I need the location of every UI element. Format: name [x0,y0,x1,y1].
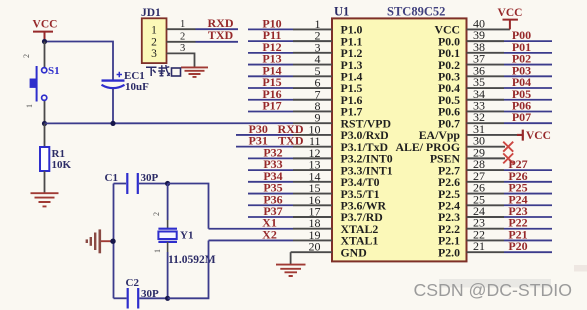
svg-text:S1: S1 [48,65,60,77]
wire net P13 / pin 4 [248,52,332,67]
svg-text:P17: P17 [262,98,281,112]
svg-text:Y1: Y1 [180,230,193,242]
watermark background band [439,279,551,288]
svg-text:U1: U1 [334,5,349,19]
node junction EC1 / reset bus [110,121,115,126]
wire net P32 / pin 12 [248,145,332,160]
wire net P37 / pin 17 [248,204,332,219]
wire C1-C2 left rail [113,184,115,299]
wire net P12 / pin 3 [248,40,332,55]
svg-text:CSDN @DC-STDIO: CSDN @DC-STDIO [414,280,572,300]
wire net P33 / pin 13 [248,157,332,172]
svg-text:30P: 30P [141,172,159,184]
capacitor EC1 10uF [102,70,150,124]
pin 30 no-connect [467,134,514,152]
svg-text:X2: X2 [262,227,277,241]
IC U1 right pin names [395,23,460,260]
IC U1 left pin names [341,23,393,260]
wire net P15 / pin 6 [248,75,332,90]
pin 31 EA to VCC [467,122,551,142]
wire net P03 / pin 36 [467,63,553,77]
capacitor C2 30P [114,277,168,309]
svg-text:1: 1 [180,19,185,30]
resistor R1 10K [40,124,72,194]
wire net P34 / pin 14 [248,169,332,184]
wire net P26 / pin 27 [467,169,553,183]
wire VCC to EC1 top [45,42,114,81]
pin 40 to VCC [467,7,523,30]
wire net P23 / pin 24 [467,204,553,218]
wire net P06 / pin 33 [467,98,553,112]
svg-text:2: 2 [152,212,161,216]
capacitor C1 30P [105,172,168,194]
svg-text:VCC: VCC [498,7,523,19]
svg-text:3: 3 [180,43,185,54]
pin 3 of JD1 to ground [167,53,195,67]
svg-text:C2: C2 [126,277,140,289]
earth ground (left of crystal) [87,229,113,253]
wire net P21 / pin 22 [467,227,553,241]
switch S1 [22,42,60,124]
pin 2 of JD1 [167,41,196,43]
node junction ground / left rail [110,239,115,244]
wire net P04 / pin 35 [467,75,553,89]
node junction C1 right [165,181,170,186]
IC U1 STC89C52 body [332,5,467,262]
wire net P24 / pin 25 [467,192,553,206]
svg-text:2: 2 [151,37,157,49]
svg-text:21: 21 [473,239,485,253]
crystal Y1 [152,184,216,299]
wire net P25 / pin 26 [467,181,553,195]
wire net P36 / pin 16 [248,192,332,207]
svg-text:TXD: TXD [208,28,234,42]
node junction at VCC [42,39,47,44]
wire net P16 / pin 7 [248,87,332,102]
wire C1 to X1 [168,184,209,229]
svg-text:GND: GND [341,245,367,259]
ground below pin 20 [276,265,306,276]
svg-text:VCC: VCC [33,19,58,31]
svg-text:STC89C52: STC89C52 [387,5,445,19]
svg-text:C1: C1 [105,172,118,184]
svg-text:P07: P07 [512,110,531,124]
label download-port (Chinese) [146,65,181,76]
wire net P22 / pin 23 [467,216,553,230]
svg-text:2: 2 [22,54,31,58]
node junction C2 right [165,296,170,301]
svg-text:30P: 30P [141,288,159,300]
svg-text:P20: P20 [508,239,527,253]
pin 1 of JD1 [167,28,196,30]
wire net RXD [196,28,239,30]
wire net P02 / pin 37 [467,52,553,66]
svg-text:VCC: VCC [526,130,551,142]
wire net P31 TXD / pin 11 [236,134,332,149]
svg-text:20: 20 [309,240,321,254]
wire reset bus to pin9 [45,122,294,124]
wire net P01 / pin 38 [467,40,553,54]
svg-text:10K: 10K [52,159,72,171]
svg-text:1: 1 [151,25,157,37]
wire net P27 / pin 28 [467,157,553,171]
ground below R1 [31,193,59,206]
svg-text:JD1: JD1 [141,7,161,19]
pin 20 GND to ground [291,240,332,264]
wire C2 to X2 [168,241,209,299]
ground below JD1 [181,67,208,77]
svg-text:3: 3 [151,48,157,60]
svg-text:10uF: 10uF [125,81,149,93]
connector JD1 [141,7,167,63]
wire net P10 / pin 1 [248,16,332,31]
wire net P05 / pin 34 [467,87,553,101]
pin 9 RST [293,111,332,125]
wire net X1 / pin 18 [209,216,333,231]
wire net P35 / pin 15 [248,181,332,196]
wire net P17 / pin 8 [248,98,332,113]
svg-text:P2.0: P2.0 [438,245,460,259]
pin 29 no-connect [467,145,514,163]
wire net P14 / pin 5 [248,63,332,78]
wire net P11 / pin 2 [248,28,332,43]
svg-text:1: 1 [153,249,162,253]
power VCC (top-left) [33,19,58,42]
wire net P20 / pin 21 [467,239,553,253]
wire net X2 / pin 19 [209,227,333,242]
wire net P30 RXD / pin 10 [236,122,332,137]
wire net TXD [196,41,239,43]
wire net P07 / pin 32 [467,110,553,124]
svg-text:1: 1 [25,104,34,108]
node junction button-bottom / reset bus [42,121,47,126]
svg-text:2: 2 [180,32,185,43]
wire net P00 / pin 39 [467,28,553,42]
